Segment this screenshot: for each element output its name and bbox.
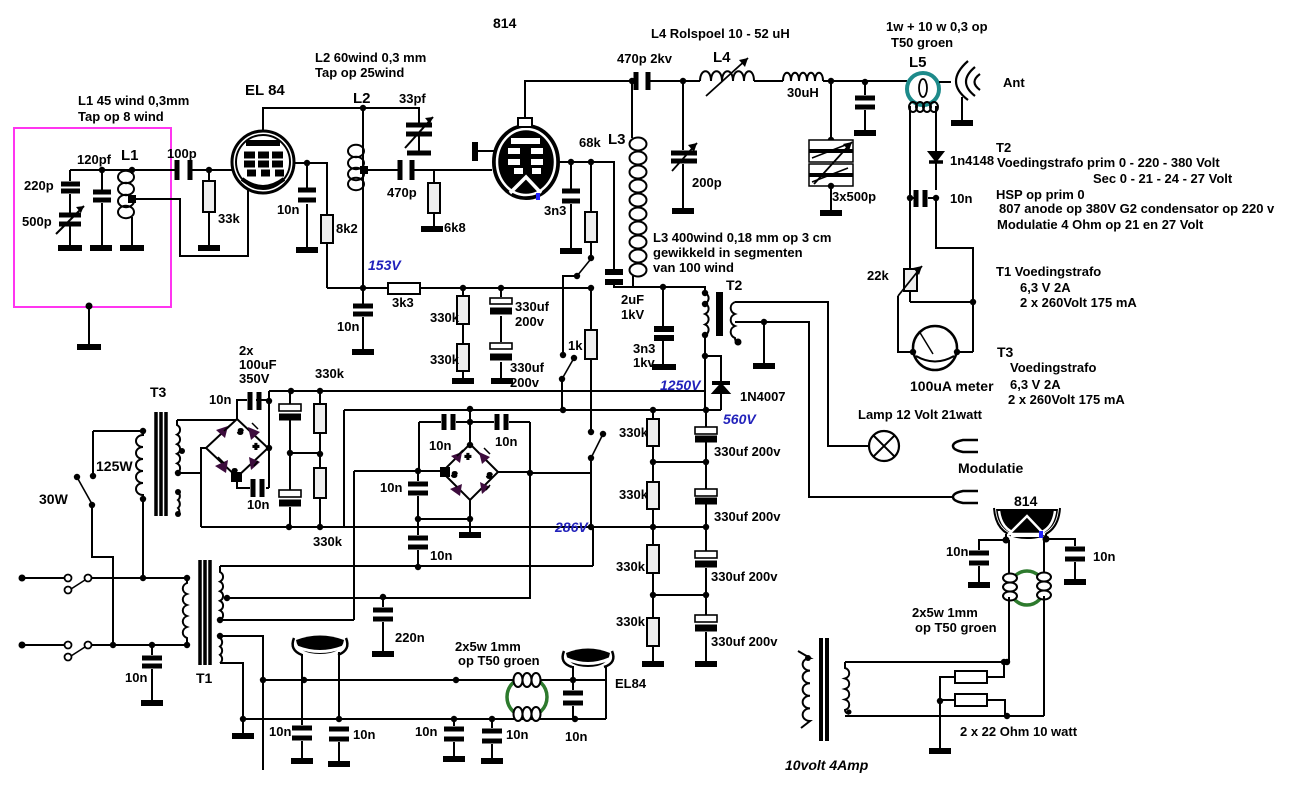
- mains switch bottom: [65, 642, 72, 649]
- svg-text:L1 45 wind 0,3mm: L1 45 wind 0,3mm: [78, 93, 189, 108]
- svg-text:Modulatie: Modulatie: [958, 460, 1024, 476]
- blue mark tube bottom: [536, 193, 540, 200]
- switch below 563: [562, 288, 564, 355]
- svg-text:2x: 2x: [239, 343, 254, 358]
- lamp 12V: [869, 431, 899, 461]
- wire right leg down to meter column: [936, 198, 973, 352]
- inductor L4 (rolspoel): [700, 71, 754, 81]
- svg-text:8k2: 8k2: [336, 221, 358, 236]
- wire 807 plate line: [558, 162, 614, 270]
- capacitor 10n under 153V node: [362, 288, 364, 349]
- svg-text:Tap op 25wind: Tap op 25wind: [315, 65, 404, 80]
- svg-text:10n: 10n: [277, 202, 299, 217]
- svg-text:10n: 10n: [337, 319, 359, 334]
- wire 807 anode top: [525, 81, 634, 118]
- ground under T2 tap: [763, 322, 765, 363]
- capacitor 10n x418 upper: [417, 471, 419, 519]
- wire L2 tap to 470p: [368, 169, 400, 171]
- svg-text:s: s: [487, 470, 492, 480]
- svg-text:op T50 groen: op T50 groen: [458, 653, 540, 668]
- svg-text:L4 Rolspoel 10 - 52 uH: L4 Rolspoel 10 - 52 uH: [651, 26, 790, 41]
- capacitor at L5 left: [864, 82, 866, 130]
- wire EL84 anode to top rail: [263, 108, 363, 132]
- svg-text:Voedingstrafo prim 0 - 220 -: Voedingstrafo prim 0 - 220 - 380 Volt: [997, 155, 1220, 170]
- y471 line: [354, 470, 442, 472]
- svg-text:30W: 30W: [39, 491, 69, 507]
- svg-text:470p: 470p: [387, 185, 417, 200]
- svg-text:33pf: 33pf: [399, 91, 426, 106]
- svg-text:560V: 560V: [723, 411, 757, 427]
- resistor 3k3 (horizontal): [388, 283, 420, 294]
- svg-text:T1: T1: [196, 670, 213, 686]
- svg-text:330uf 200v: 330uf 200v: [714, 509, 781, 524]
- capacitor 100uF 1: [289, 391, 291, 453]
- bridge1 top 10n: [237, 400, 269, 419]
- tube EL84 output (lens): [563, 649, 614, 720]
- capacitor 10n left: [978, 566, 980, 582]
- mains line top: [22, 577, 187, 579]
- capacitor 100p (series): [177, 160, 190, 180]
- transformer T2: [702, 290, 978, 503]
- svg-text:330k: 330k: [313, 534, 343, 549]
- svg-text:330uf 200v: 330uf 200v: [714, 444, 781, 459]
- svg-text:van 100 wind: van 100 wind: [653, 260, 734, 275]
- T3 secondary lower: [178, 492, 180, 515]
- wire x344 down: [343, 410, 345, 527]
- svg-text:1kv: 1kv: [633, 355, 655, 370]
- svg-text:470p 2kv: 470p 2kv: [617, 51, 673, 66]
- svg-text:Sec 0 - 21 - 24 - 27 Volt: Sec 0 - 21 - 24 - 27 Volt: [1093, 171, 1233, 186]
- svg-text:330uf 200v: 330uf 200v: [711, 634, 778, 649]
- variable capacitor 200p: [682, 81, 684, 208]
- svg-text:L4: L4: [713, 49, 731, 66]
- tube 814 output (black bowl): [968, 508, 1086, 585]
- svg-text:EL84: EL84: [615, 676, 647, 691]
- svg-text:10n: 10n: [495, 434, 517, 449]
- toroid 2 legs top: [1009, 539, 1044, 573]
- toroid2 legs bottom: [1009, 596, 1044, 716]
- svg-text:op T50 groen: op T50 groen: [915, 620, 997, 635]
- resistor 330k B4: [647, 618, 659, 646]
- svg-text:10n: 10n: [247, 497, 269, 512]
- ground at x243: [240, 716, 246, 722]
- T3 primary wire/top: [93, 431, 143, 476]
- svg-text:10n: 10n: [430, 548, 452, 563]
- node 330uf chainA top: [498, 285, 504, 291]
- wire left pin to 10n: [979, 540, 1006, 550]
- svg-text:+: +: [465, 452, 471, 463]
- svg-text:1kV: 1kV: [621, 307, 644, 322]
- wire EL84 plate right: [293, 163, 327, 215]
- svg-text:330k: 330k: [430, 310, 460, 325]
- T2 secondary: [731, 302, 737, 342]
- T3 core: [156, 412, 166, 516]
- svg-text:330uf: 330uf: [510, 360, 545, 375]
- OSC box (magenta frame): [14, 128, 171, 307]
- svg-text:Ant: Ant: [1003, 75, 1025, 90]
- node 200p: [680, 78, 686, 84]
- capacitor 10n right: [1074, 562, 1076, 579]
- svg-text:330k: 330k: [616, 559, 646, 574]
- svg-text:286V: 286V: [554, 519, 589, 535]
- node plate/10n: [304, 160, 310, 166]
- svg-text:3k3: 3k3: [392, 295, 414, 310]
- svg-text:330k: 330k: [430, 352, 460, 367]
- wire L4 to 30uH: [754, 80, 783, 82]
- wire 100p to grid node: [206, 167, 212, 173]
- svg-text:200v: 200v: [515, 314, 545, 329]
- svg-text:10n: 10n: [209, 392, 231, 407]
- resistor 330k A1: [462, 288, 464, 296]
- rail 560V y=410: [344, 409, 721, 411]
- svg-text:10n: 10n: [946, 544, 968, 559]
- svg-text:200v: 200v: [510, 375, 540, 390]
- bridge2 bottom ground: [469, 500, 471, 532]
- ground under 3n3 1kv: [652, 364, 676, 370]
- svg-text:s: s: [238, 426, 243, 436]
- wire L1 tap to cathode: [136, 190, 248, 256]
- resistor 22ohm 2: [955, 694, 987, 706]
- capacitor 330uf A2: [490, 343, 512, 349]
- svg-text:1N4007: 1N4007: [740, 389, 786, 404]
- resistor 68k: [590, 162, 592, 258]
- ground under 330uf chain: [695, 661, 717, 667]
- svg-text:Tap op 8 wind: Tap op 8 wind: [78, 109, 164, 124]
- right winding: [845, 662, 849, 714]
- svg-text:L3 400wind 0,18 mm op 3 cm: L3 400wind 0,18 mm op 3 cm: [653, 230, 831, 245]
- resistor 330k M2: [314, 468, 326, 498]
- svg-text:330uf 200v: 330uf 200v: [711, 569, 778, 584]
- 814 pins: [1006, 534, 1046, 540]
- capacitor 10n x454: [453, 719, 455, 756]
- svg-text:10n: 10n: [429, 438, 451, 453]
- rail y680: [263, 679, 606, 681]
- node 3n3: [568, 159, 574, 165]
- ground below magenta box: [77, 303, 101, 348]
- node 470p2kv: [629, 78, 635, 84]
- wire T2 sec top to lamp: [735, 302, 869, 446]
- transformer T3: [74, 412, 236, 645]
- inductor L2: [362, 108, 364, 287]
- svg-text:100p: 100p: [167, 146, 197, 161]
- T1 core: [200, 560, 210, 665]
- variable capacitor 3x500p: [830, 81, 832, 140]
- svg-text:814: 814: [493, 15, 517, 31]
- svg-text:100uF: 100uF: [239, 357, 277, 372]
- inductor L5 (teal ring): [898, 61, 980, 370]
- capacitor 330uf B1: [705, 410, 707, 462]
- link caps to 330k mid: [290, 452, 320, 454]
- ground under 330k A: [452, 378, 474, 384]
- diode 1n4148: [929, 152, 943, 161]
- inductor L1: [118, 170, 134, 218]
- svg-text:10n: 10n: [506, 727, 528, 742]
- transformer 10volt (bottom right): [798, 638, 1007, 751]
- svg-text:L3: L3: [608, 131, 626, 148]
- svg-text:10n: 10n: [269, 724, 291, 739]
- svg-text:10n: 10n: [1093, 549, 1115, 564]
- capacitor 10n x492: [491, 719, 493, 758]
- tap on L2: [360, 166, 368, 174]
- svg-text:68k: 68k: [579, 135, 601, 150]
- ground under 33k: [198, 245, 220, 251]
- resistor 6k8: [433, 170, 435, 226]
- ground under 120pf: [90, 245, 112, 251]
- wire 30uH to L5: [823, 80, 907, 82]
- resistor 330k M1: [319, 391, 321, 468]
- T1 secondary upper: [220, 566, 223, 620]
- variable capacitor 500p: [59, 215, 81, 224]
- bridge rectifier 1: [201, 391, 326, 527]
- L5 secondary loops: [909, 102, 938, 112]
- svg-text:T2: T2: [996, 140, 1011, 155]
- svg-text:153V: 153V: [368, 257, 402, 273]
- mains switch top: [65, 575, 72, 582]
- capacitor 330uf B4: [705, 595, 707, 661]
- ground under cap865: [854, 130, 876, 136]
- resistor 330k B3: [647, 545, 659, 573]
- svg-text:L2: L2: [353, 90, 371, 107]
- capacitor 2uF 1kV: [605, 272, 623, 282]
- wire y662: [845, 661, 1007, 663]
- ground under 10n: [352, 349, 374, 355]
- ground under 10n mains: [141, 700, 163, 706]
- svg-text:10n: 10n: [125, 670, 147, 685]
- toroid transformer 2 (green ring): [845, 571, 1051, 719]
- svg-text:1k: 1k: [568, 338, 583, 353]
- node L1 top: [129, 167, 135, 173]
- toroid1 legs: [302, 652, 339, 725]
- svg-text:10n: 10n: [353, 727, 375, 742]
- svg-text:330k: 330k: [619, 425, 649, 440]
- svg-text:2 x 22 Ohm 10 watt: 2 x 22 Ohm 10 watt: [960, 724, 1078, 739]
- link to bridge2 bottom: [418, 518, 470, 520]
- svg-text:2x5w 1mm: 2x5w 1mm: [912, 605, 978, 620]
- svg-text:3n3: 3n3: [544, 203, 566, 218]
- node 68k: [588, 159, 594, 165]
- ground under 3n3: [560, 248, 582, 254]
- wire top rail to 33pf: [363, 108, 419, 123]
- toroid transformer 1 (black lens): [291, 636, 503, 765]
- ground under 330uf A: [491, 378, 513, 384]
- svg-text:L2 60wind 0,3 mm: L2 60wind 0,3 mm: [315, 50, 426, 65]
- wire right pin to 10n: [1046, 539, 1075, 546]
- capacitor 10n x302: [301, 741, 303, 758]
- transformer T1 and mains: [19, 471, 594, 770]
- left branch x419: [418, 422, 420, 471]
- capacitor 470p (series): [400, 160, 412, 180]
- variable capacitor 33pf: [406, 125, 432, 134]
- ground under antenna: [951, 120, 973, 126]
- capacitor 10n (series between legs): [907, 195, 913, 201]
- capacitor 120pf: [101, 170, 103, 245]
- svg-text:T1 Voedingstrafo: T1 Voedingstrafo: [996, 264, 1101, 279]
- svg-text:T2: T2: [726, 277, 743, 293]
- svg-text:10n: 10n: [380, 480, 402, 495]
- svg-text:gewikkeld in segmenten: gewikkeld in segmenten: [653, 245, 803, 260]
- wire 470p to 807 grid: [412, 169, 492, 171]
- wire 2uF to T2: [614, 287, 705, 293]
- svg-text:Lamp 12 Volt 21watt: Lamp 12 Volt 21watt: [858, 407, 983, 422]
- svg-text:125W: 125W: [96, 458, 133, 474]
- svg-text:10n: 10n: [950, 191, 972, 206]
- jack 2: [953, 491, 978, 503]
- rail 286V y=527: [201, 526, 708, 528]
- chain 330k right x=653: [642, 410, 717, 664]
- tube 807/814 driver: [475, 118, 559, 200]
- wire to L4: [648, 80, 700, 82]
- meter 100uA: [913, 326, 957, 370]
- svg-text:2uF: 2uF: [621, 292, 644, 307]
- svg-text:6k8: 6k8: [444, 220, 466, 235]
- svg-text:33k: 33k: [218, 211, 240, 226]
- svg-text:22k: 22k: [867, 268, 889, 283]
- EL84 output legs: [573, 666, 606, 719]
- capacitor 330uf A1: [500, 288, 502, 378]
- bridge rectifier 2: [354, 406, 591, 597]
- svg-text:200p: 200p: [692, 175, 722, 190]
- capacitor 3n3: [570, 162, 572, 248]
- ground under 10n: [296, 247, 318, 253]
- svg-text:10n: 10n: [565, 729, 587, 744]
- wires bottom rails: [243, 677, 606, 722]
- node cap865: [862, 79, 868, 85]
- 807 grid pin bar: [472, 142, 478, 161]
- tap on L1: [128, 195, 136, 203]
- ground under 22ohm: [939, 701, 941, 748]
- link y595: [653, 594, 706, 596]
- svg-text:L5: L5: [909, 54, 927, 71]
- T3 secondary upper: [177, 420, 180, 474]
- resistor 22ohm 1: [955, 671, 987, 683]
- resistor 330k B1: [652, 410, 654, 419]
- wire 153V screen line y=288: [201, 260, 721, 530]
- svg-text:3x500p: 3x500p: [832, 189, 876, 204]
- y422 line with 10n caps: [419, 421, 530, 423]
- T2 core: [716, 292, 723, 336]
- svg-text:330k: 330k: [619, 487, 649, 502]
- svg-text:500p: 500p: [22, 214, 52, 229]
- ground under L1: [120, 245, 144, 251]
- svg-text:814: 814: [1014, 493, 1038, 509]
- svg-text:s: s: [232, 466, 237, 476]
- resistor 330k A2: [457, 344, 469, 371]
- wire wiper to meter: [898, 296, 911, 352]
- svg-text:220p: 220p: [24, 178, 54, 193]
- ground under 220p/500p: [58, 245, 82, 251]
- svg-text:100uA meter: 100uA meter: [910, 378, 994, 394]
- wire top of L1 tank y=170: [70, 169, 233, 171]
- switch 125W/30W: [90, 473, 96, 479]
- svg-text:HSP op prim 0: HSP op prim 0: [996, 187, 1085, 202]
- bridge1 bottom 10n: [237, 481, 269, 488]
- antenna: [956, 61, 968, 100]
- svg-text:EL 84: EL 84: [245, 82, 285, 99]
- tube EL84 (oscillator): [232, 131, 294, 193]
- svg-text:10volt 4Amp: 10volt 4Amp: [785, 757, 869, 773]
- svg-text:2 x 260Volt 175 mA: 2 x 260Volt 175 mA: [1008, 392, 1125, 407]
- svg-text:10n: 10n: [415, 724, 437, 739]
- svg-text:2x5w 1mm: 2x5w 1mm: [455, 639, 521, 654]
- wire L5 to antenna: [939, 81, 951, 83]
- T3 primary winding: [136, 431, 143, 499]
- switch below 1k: [588, 429, 594, 435]
- svg-text:30uH: 30uH: [787, 85, 819, 100]
- bridge1 plus column: [268, 391, 270, 488]
- resistor 8k2: [321, 215, 333, 243]
- svg-text:6,3 V 2A: 6,3 V 2A: [1020, 280, 1071, 295]
- capacitor 470p 2kv: [636, 72, 648, 90]
- jack Modulatie: [953, 440, 978, 452]
- bridge2 right: [498, 471, 530, 473]
- mains line bottom: [22, 644, 187, 646]
- node 330k chainA top: [460, 285, 466, 291]
- ground under 6k8: [421, 226, 443, 232]
- svg-text:2 x 260Volt 175 mA: 2 x 260Volt 175 mA: [1020, 295, 1137, 310]
- svg-text:L1: L1: [121, 147, 139, 164]
- left winding: [798, 651, 810, 728]
- svg-text:+: +: [253, 442, 259, 453]
- svg-text:1n4148: 1n4148: [950, 153, 994, 168]
- svg-text:1w + 10 w 0,3 op: 1w + 10 w 0,3 op: [886, 19, 988, 34]
- wire y716: [845, 715, 1044, 717]
- svg-text:T3: T3: [150, 384, 167, 400]
- toroid transformer mid (green ring): [507, 673, 547, 721]
- wire T2 primary bottom down: [704, 335, 706, 410]
- ground under 3x500p: [820, 210, 842, 216]
- node 68k bottom: [588, 255, 594, 261]
- node 3n3 1kv top: [660, 284, 666, 290]
- svg-text:Modulatie 4 Ohm op 21 en 27: Modulatie 4 Ohm op 21 en 27 Volt: [997, 217, 1204, 232]
- ground under 330k chain: [642, 661, 664, 667]
- diode 1N4007: [705, 356, 721, 382]
- svg-text:220n: 220n: [395, 630, 425, 645]
- svg-text:Voedingstrafo: Voedingstrafo: [1010, 360, 1096, 375]
- svg-text:330uf: 330uf: [515, 299, 550, 314]
- svg-text:T3: T3: [997, 344, 1014, 360]
- capacitor 220n: [380, 594, 386, 600]
- core: [821, 638, 827, 741]
- T1 secondary lower: [220, 636, 222, 663]
- rail 1250V y=391: [269, 390, 705, 392]
- inductor L3: [630, 138, 647, 277]
- svg-text:s: s: [452, 469, 457, 479]
- capacitor 10n mains: [151, 645, 153, 700]
- resistor 330k B2: [647, 482, 659, 509]
- link y462: [653, 461, 706, 463]
- svg-text:120pf: 120pf: [77, 152, 112, 167]
- node x591 on 153V line: [588, 285, 594, 291]
- capacitor 10n (EL84 screen): [306, 163, 308, 247]
- T1 primary winding: [183, 578, 187, 645]
- capacitor 330uf B3: [705, 527, 707, 595]
- capacitor 220p: [61, 170, 80, 213]
- capacitor 10n x573: [572, 680, 574, 719]
- capacitor 330uf B2: [705, 462, 707, 527]
- resistor 33k: [208, 170, 210, 245]
- svg-text:330k: 330k: [315, 366, 345, 381]
- svg-text:350V: 350V: [239, 371, 270, 386]
- node L2 top: [360, 105, 366, 111]
- svg-text:330k: 330k: [616, 614, 646, 629]
- capacitor 10n x418 lower: [417, 519, 419, 567]
- node 120pf top: [99, 167, 105, 173]
- svg-text:807 anode op 380V G2 condens: 807 anode op 380V G2 condensator op 220 …: [999, 201, 1275, 216]
- bridge1 left wire: [201, 448, 206, 527]
- svg-text:3n3: 3n3: [633, 341, 655, 356]
- wire T2 sec tap to jack: [735, 322, 954, 497]
- node 3x500p: [828, 78, 834, 84]
